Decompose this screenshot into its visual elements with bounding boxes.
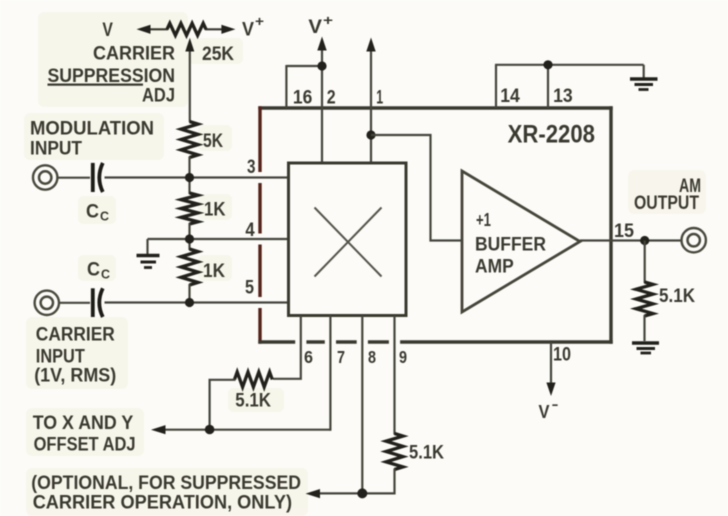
potentiometer 25K	[137, 23, 236, 35]
svg-text:5.1K: 5.1K	[409, 443, 444, 464]
wire 5.1K to ground	[643, 315, 645, 341]
svg-text:C: C	[100, 209, 110, 224]
svg-text:ADJ: ADJ	[142, 86, 175, 107]
wire trunk 1K to 1K	[188, 223, 190, 250]
svg-text:1K: 1K	[204, 200, 226, 221]
svg-text:XR-2208: XR-2208	[508, 120, 595, 148]
label V- supply	[539, 396, 559, 422]
svg-text:V: V	[242, 20, 254, 41]
svg-text:AMP: AMP	[475, 257, 514, 278]
wire pin1 vertical with arrow	[366, 38, 375, 164]
svg-text:C: C	[87, 260, 100, 281]
node pin1 junction	[366, 130, 375, 139]
svg-text:16: 16	[293, 87, 313, 109]
op-amp buffer triangle	[462, 171, 580, 312]
wire pin1 to buffer input	[371, 135, 462, 241]
svg-text:25K: 25K	[202, 44, 234, 65]
svg-text:CARRIER: CARRIER	[36, 324, 115, 345]
node pin2/16 V+ junction	[317, 61, 326, 70]
wire pin4 row	[148, 238, 289, 240]
resistor 5.1K output	[636, 282, 653, 316]
node pin13 junction	[543, 60, 552, 69]
node pin3 junction	[185, 173, 194, 182]
node offset junction	[205, 425, 215, 435]
wire offset-adj row with arrow	[151, 425, 330, 434]
svg-text:V: V	[102, 20, 113, 41]
node pin4 junction	[185, 234, 194, 243]
svg-text:INPUT: INPUT	[30, 139, 82, 160]
multiplier block	[289, 163, 407, 316]
wire pin8 down	[361, 316, 363, 494]
svg-text:INPUT: INPUT	[36, 346, 85, 367]
wire pins 14,13 to ground rail	[495, 65, 644, 108]
svg-text:MODULATION: MODULATION	[30, 119, 154, 140]
output connector AM	[682, 228, 706, 252]
svg-text:+: +	[255, 13, 264, 29]
resistor 5.1K pin9	[386, 434, 403, 470]
wire pin15 output row	[580, 239, 682, 241]
svg-text:15: 15	[614, 220, 634, 242]
resistor 5.1K horizontal	[235, 372, 273, 387]
svg-text:C: C	[101, 267, 111, 282]
arrow optional row	[306, 489, 321, 498]
label CC modulation	[86, 202, 110, 224]
svg-text:V: V	[539, 402, 550, 422]
svg-text:10: 10	[553, 344, 571, 366]
svg-text:+: +	[323, 12, 333, 28]
svg-text:+1: +1	[476, 210, 491, 230]
ground below output 5.1K	[632, 343, 659, 353]
pot wiper arrow to V+ rail	[185, 38, 194, 122]
wire pin2 vertical with V+ arrow	[317, 37, 326, 164]
capacitor CC carrier	[93, 288, 103, 317]
input connector carrier	[35, 291, 90, 315]
svg-text:CARRIER OPERATION, ONLY): CARRIER OPERATION, ONLY)	[33, 492, 292, 514]
capacitor CC modulation	[93, 163, 103, 192]
wire pin9 down	[393, 316, 395, 435]
resistor 5K	[181, 122, 198, 158]
svg-text:5.1K: 5.1K	[659, 286, 695, 307]
label V+ at pot	[242, 13, 264, 40]
input connector modulation	[33, 165, 90, 189]
wire pin10 with V- arrow	[546, 342, 555, 396]
label V+ center	[308, 12, 333, 38]
svg-text:TO X AND Y: TO X AND Y	[33, 412, 134, 434]
node pin5 junction	[185, 298, 194, 307]
wire trunk 5K to 1K	[188, 157, 190, 195]
wire pin3 row	[105, 176, 289, 178]
svg-text:8: 8	[368, 347, 376, 367]
svg-text:C: C	[86, 202, 99, 223]
svg-text:5: 5	[245, 277, 254, 299]
wire pin16 to V+ node	[286, 65, 322, 108]
wire trunk 1K to pin5 node	[188, 284, 190, 303]
wire pin5 row	[105, 301, 289, 303]
IC outline XR-2208	[258, 106, 612, 343]
node output junction	[640, 236, 649, 245]
svg-text:-: -	[552, 396, 559, 412]
svg-text:(1V, RMS): (1V, RMS)	[34, 366, 116, 387]
resistor 1K upper	[181, 193, 198, 224]
svg-text:1: 1	[376, 87, 383, 109]
label CC carrier	[87, 260, 111, 282]
wire pin6 down and left	[273, 316, 301, 379]
node optional junction	[357, 488, 367, 498]
resistor 1K lower	[181, 249, 198, 285]
wire output node to 5.1K	[644, 241, 646, 284]
underline suppression	[48, 83, 144, 85]
svg-text:9: 9	[399, 347, 407, 367]
svg-text:BUFFER: BUFFER	[475, 234, 546, 255]
svg-text:1K: 1K	[203, 261, 225, 282]
svg-text:5.1K: 5.1K	[235, 390, 271, 411]
svg-text:OFFSET ADJ: OFFSET ADJ	[34, 433, 136, 455]
ground top right	[630, 65, 658, 90]
svg-text:7: 7	[337, 347, 345, 367]
wire pin9 resistor to optional row	[317, 469, 395, 494]
wire pin7 down	[329, 316, 331, 431]
svg-text:V: V	[308, 17, 322, 38]
svg-text:2: 2	[327, 87, 336, 109]
svg-text:14: 14	[500, 85, 520, 107]
ground near 1K	[137, 239, 160, 268]
svg-text:CARRIER: CARRIER	[93, 44, 175, 65]
svg-text:4: 4	[245, 219, 254, 241]
svg-text:6: 6	[304, 347, 313, 367]
svg-text:13: 13	[553, 85, 573, 107]
svg-text:OUTPUT: OUTPUT	[634, 193, 699, 214]
svg-text:5K: 5K	[203, 131, 223, 152]
wire 5.1K left corner down	[210, 380, 236, 430]
svg-text:3: 3	[247, 156, 256, 178]
